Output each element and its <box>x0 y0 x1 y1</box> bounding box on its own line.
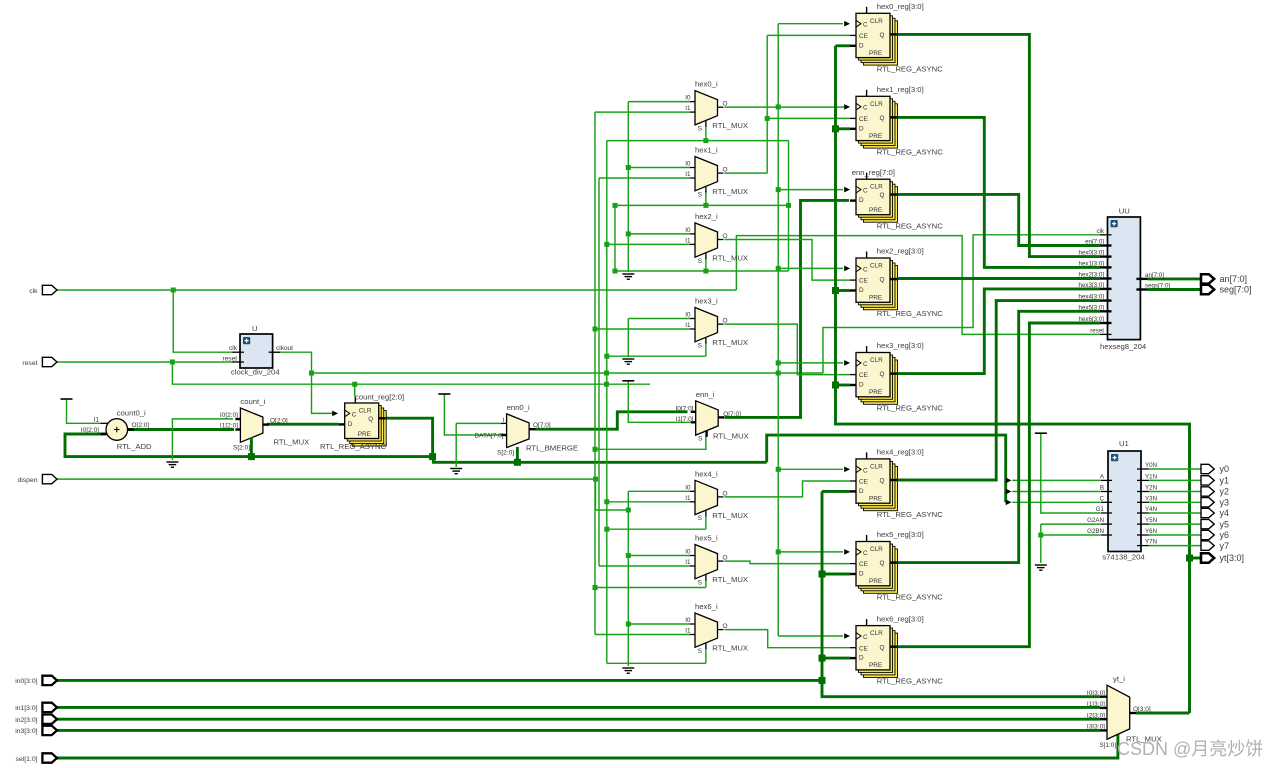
wire hex6_i I0 <box>628 623 690 625</box>
svg-text:I0: I0 <box>685 617 691 624</box>
svg-text:Y6N: Y6N <box>1145 528 1157 535</box>
svg-text:S[1:0]: S[1:0] <box>1100 742 1117 749</box>
svg-text:y5: y5 <box>1220 519 1230 529</box>
svg-text:C: C <box>352 411 357 418</box>
junction count bus junction <box>429 453 436 460</box>
wire hex3_i S stub <box>705 342 707 356</box>
svg-text:S[2:0]: S[2:0] <box>233 445 250 452</box>
junction reset junction <box>604 382 609 387</box>
svg-text:I1: I1 <box>685 628 691 635</box>
svg-text:I1[2:0]: I1[2:0] <box>220 423 238 430</box>
svg-text:hex6_reg[3:0]: hex6_reg[3:0] <box>877 614 924 623</box>
wire enn_i S line <box>595 448 707 450</box>
svg-text:Q: Q <box>880 644 885 651</box>
wire in2[3:0] bus <box>56 718 1100 721</box>
wire hex2_i O to hex2_reg CE <box>725 240 851 281</box>
svg-text:CE: CE <box>859 645 868 652</box>
svg-text:y0: y0 <box>1220 464 1230 474</box>
svg-text:hex4[3:0]: hex4[3:0] <box>1079 294 1105 301</box>
svg-text:hex5[3:0]: hex5[3:0] <box>1079 304 1105 311</box>
svg-text:RTL_MUX: RTL_MUX <box>712 338 748 347</box>
wire hex1_i I1 <box>599 177 690 179</box>
wire enn_i S stub <box>705 435 707 449</box>
svg-text:D: D <box>859 488 864 495</box>
wire hex0_i I1 <box>595 111 690 113</box>
wire hex5_i S stub <box>705 579 707 588</box>
wire in1[3:0] bus <box>56 706 1100 709</box>
wire Y5N to y5 port <box>1148 523 1202 525</box>
wire yt_i O <box>1136 712 1190 715</box>
svg-text:I1: I1 <box>685 237 691 244</box>
wire hex4_reg D <box>822 490 850 493</box>
wire hex6_i I1 <box>595 634 690 636</box>
wire Y6N to y6 port <box>1148 534 1202 536</box>
svg-text:CLR: CLR <box>359 408 372 415</box>
wire hex2_reg Q to hexseg <box>898 277 1101 280</box>
svg-text:CLR: CLR <box>870 184 883 191</box>
mux hex5_i (RTL_MUX) <box>690 545 724 581</box>
svg-text:C: C <box>863 266 868 273</box>
channel rail B <box>598 178 600 566</box>
register enn_reg[7:0] (RTL_REG_ASYNC) <box>850 173 898 223</box>
wire hex2_i S stub <box>705 257 707 271</box>
svg-text:RTL_MUX: RTL_MUX <box>274 437 310 446</box>
output port y0 <box>1201 464 1214 473</box>
svg-text:hex3[3:0]: hex3[3:0] <box>1079 282 1105 289</box>
svg-text:I0: I0 <box>685 484 691 491</box>
wire Y0N to y0 port <box>1148 468 1202 470</box>
output port y4 <box>1201 508 1214 517</box>
register count_reg[2:0] (RTL_REG_ASYNC) <box>339 397 387 447</box>
svg-text:PRE: PRE <box>869 389 882 396</box>
svg-text:CLR: CLR <box>870 357 883 364</box>
svg-text:Y0N: Y0N <box>1145 462 1157 469</box>
select collector rail <box>788 141 790 271</box>
mux enn_i (RTL_MUX) <box>691 401 725 437</box>
wire bit to B <box>1012 491 1100 493</box>
wire clkout to hexseg clk <box>823 235 1100 373</box>
svg-text:in1[3:0]: in1[3:0] <box>15 705 37 712</box>
wire G2BN wire <box>1041 534 1100 536</box>
svg-text:PRE: PRE <box>869 295 882 302</box>
wire hex1_reg CE <box>767 117 850 119</box>
wire hex3_reg D <box>836 384 851 387</box>
svg-text:Q: Q <box>368 416 373 423</box>
register hex6_reg[3:0] (RTL_REG_ASYNC) <box>850 619 898 677</box>
svg-text:S: S <box>698 126 703 133</box>
wire count bus to s74138 select <box>767 435 1006 502</box>
input port in2[3:0] <box>42 715 57 724</box>
wire seg[7:0] to port <box>1148 288 1202 291</box>
svg-text:RTL_REG_ASYNC: RTL_REG_ASYNC <box>320 442 387 451</box>
wire clk net horizontal <box>56 289 736 291</box>
wire Y7N to y7 port <box>1148 545 1202 547</box>
svg-text:RTL_MUX: RTL_MUX <box>712 644 748 653</box>
wire hex6_i S stub <box>705 647 707 663</box>
svg-text:hex0[3:0]: hex0[3:0] <box>1079 250 1105 257</box>
wire hex5_reg C <box>778 551 843 553</box>
svg-text:enn_i: enn_i <box>696 390 715 399</box>
wire hex2_i I0 <box>628 233 690 235</box>
wire hex1_i S stub <box>705 191 707 206</box>
svg-text:RTL_BMERGE: RTL_BMERGE <box>526 444 578 453</box>
wire in0[3:0] bus <box>56 679 822 682</box>
mux count_i (RTL_MUX) <box>235 408 269 444</box>
svg-text:dispen: dispen <box>17 477 37 484</box>
svg-text:clk: clk <box>29 288 38 295</box>
svg-text:reset: reset <box>22 360 37 367</box>
mux hex2_i (RTL_MUX) <box>690 223 724 259</box>
wire hex0_i O to hex1_reg C <box>725 106 845 108</box>
svg-text:S: S <box>698 436 703 443</box>
C pin arrow <box>844 104 850 110</box>
wire hex5_i I1 <box>599 565 690 567</box>
module U1 (s74138_204) <box>1101 451 1149 552</box>
svg-text:y3: y3 <box>1220 498 1230 508</box>
wire an[7:0] to port <box>1148 277 1202 280</box>
channel rail E segment 2 <box>627 319 629 358</box>
wire clk to clock_div <box>173 290 234 352</box>
svg-text:hex4_reg[3:0]: hex4_reg[3:0] <box>877 448 924 457</box>
ground hex3_i I0 tie <box>622 359 634 364</box>
svg-text:O: O <box>723 167 728 174</box>
ground count_i I0 tie low <box>166 462 178 467</box>
wire hex4_i O to hex4_reg CE <box>725 481 851 497</box>
svg-text:I1: I1 <box>685 495 691 502</box>
svg-text:RTL_REG_ASYNC: RTL_REG_ASYNC <box>877 64 944 73</box>
svg-text:I0[2:0]: I0[2:0] <box>220 412 238 419</box>
wire hex4_i I0 <box>628 490 690 492</box>
channel rail C <box>606 141 608 664</box>
svg-text:C: C <box>863 634 868 641</box>
svg-text:I0: I0 <box>685 312 691 319</box>
svg-text:CE: CE <box>859 33 868 40</box>
svg-text:hexseg8_204: hexseg8_204 <box>1100 342 1147 351</box>
wire enn0_i I tie low <box>455 423 457 467</box>
svg-text:G2BN: G2BN <box>1087 528 1104 535</box>
svg-text:S: S <box>698 579 703 586</box>
svg-text:G2AN: G2AN <box>1087 517 1104 524</box>
svg-text:hex4_i: hex4_i <box>695 469 718 478</box>
svg-text:D: D <box>859 125 864 132</box>
svg-text:CE: CE <box>859 278 868 285</box>
svg-text:RTL_MUX: RTL_MUX <box>712 187 748 196</box>
svg-text:CLR: CLR <box>870 463 883 470</box>
svg-text:D: D <box>859 382 864 389</box>
svg-text:yt[3:0]: yt[3:0] <box>1220 553 1245 563</box>
wire enn_reg C <box>778 189 843 191</box>
svg-text:RTL_ADD: RTL_ADD <box>117 442 152 451</box>
register hex5_reg[3:0] (RTL_REG_ASYNC) <box>850 535 898 593</box>
svg-text:hex2_i: hex2_i <box>695 212 718 221</box>
wire hex1_i O to CE rail <box>725 172 768 174</box>
svg-text:C: C <box>1100 495 1105 502</box>
svg-text:I0: I0 <box>685 549 691 556</box>
register hex2_reg[3:0] (RTL_REG_ASYNC) <box>850 252 898 310</box>
svg-text:I1: I1 <box>94 417 100 424</box>
register hex3_reg[3:0] (RTL_REG_ASYNC) <box>850 346 898 404</box>
wire hex5_reg Q to hexseg <box>898 311 1101 562</box>
wire hex6_reg C <box>778 635 843 637</box>
svg-text:hex5_reg[3:0]: hex5_reg[3:0] <box>877 530 924 539</box>
svg-text:O: O <box>723 318 728 325</box>
in0 rail to D pins <box>822 491 1100 696</box>
mux hex0_i (RTL_MUX) <box>690 91 724 127</box>
D bus rail <box>836 46 1190 713</box>
svg-text:O[7:0]: O[7:0] <box>533 422 551 429</box>
wire Y4N to y4 port <box>1148 512 1202 514</box>
wire hex2_reg D <box>836 289 851 292</box>
wire reset distribution <box>172 362 650 384</box>
svg-text:RTL_REG_ASYNC: RTL_REG_ASYNC <box>877 222 944 231</box>
output port seg[7:0] <box>1201 285 1214 294</box>
output port y6 <box>1201 530 1214 539</box>
wire hex3_reg Q to hexseg <box>898 289 1101 374</box>
junction reset to count_reg CLR <box>352 382 357 387</box>
svg-text:count_i: count_i <box>240 397 265 406</box>
svg-text:PRE: PRE <box>869 495 882 502</box>
svg-text:A: A <box>1100 473 1105 480</box>
wire clkout distribution <box>312 372 824 374</box>
svg-text:I1: I1 <box>685 559 691 566</box>
wire hex1_reg D <box>836 127 851 130</box>
register hex1_reg[3:0] (RTL_REG_ASYNC) <box>850 90 898 148</box>
wire Y2N to y2 port <box>1148 491 1202 493</box>
wire net to hexseg reset <box>736 236 1100 335</box>
wire bit to A <box>1012 479 1100 481</box>
C pin arrow <box>844 21 850 27</box>
svg-text:C: C <box>863 22 868 29</box>
wire hex4_i S stub <box>705 515 707 530</box>
wire count0_i O to count_i I1 <box>128 428 234 431</box>
svg-text:an[7:0]: an[7:0] <box>1145 272 1164 279</box>
wire enn_i O to enn_reg D <box>725 200 850 417</box>
svg-text:count_reg[2:0]: count_reg[2:0] <box>355 393 404 402</box>
wire hex1_i S line <box>615 204 789 206</box>
svg-text:hex3_reg[3:0]: hex3_reg[3:0] <box>877 341 924 350</box>
wire hex0_i S line <box>607 140 789 142</box>
svg-text:RTL_MUX: RTL_MUX <box>712 254 748 263</box>
module U (clock_div_204) <box>233 334 281 368</box>
svg-text:O: O <box>723 555 728 562</box>
mux hex6_i (RTL_MUX) <box>690 613 724 649</box>
wire bit to C <box>1012 501 1100 503</box>
wire hex5_reg D <box>822 573 850 576</box>
svg-text:C: C <box>863 188 868 195</box>
svg-text:I2[3:0]: I2[3:0] <box>1087 713 1105 720</box>
wire hex5_i O to hex5_reg CE <box>725 561 851 564</box>
fanout arrow to pin C <box>1006 500 1012 506</box>
register hex4_reg[3:0] (RTL_REG_ASYNC) <box>850 452 898 510</box>
mux yt_i (RTL_MUX 4-input) <box>1100 685 1136 739</box>
svg-text:in0[3:0]: in0[3:0] <box>15 678 37 685</box>
wire enn_reg Q to hexseg en <box>898 194 1101 245</box>
svg-text:I0[7:0]: I0[7:0] <box>675 405 693 412</box>
svg-text:S[2:0]: S[2:0] <box>497 450 514 457</box>
svg-text:I0[3:0]: I0[3:0] <box>1087 690 1105 697</box>
constant tie bar G1 <box>1035 432 1047 434</box>
wire hex5_i S line <box>595 587 706 589</box>
svg-text:Y2N: Y2N <box>1145 485 1157 492</box>
svg-text:PRE: PRE <box>358 431 371 438</box>
svg-text:I0: I0 <box>685 227 691 234</box>
output port an[7:0] <box>1201 274 1214 283</box>
svg-text:clk: clk <box>1096 228 1104 235</box>
svg-text:C: C <box>863 467 868 474</box>
svg-text:O: O <box>723 233 728 240</box>
svg-text:PRE: PRE <box>869 578 882 585</box>
svg-text:S: S <box>698 342 703 349</box>
svg-text:y1: y1 <box>1220 476 1230 486</box>
svg-text:hex2_reg[3:0]: hex2_reg[3:0] <box>877 247 924 256</box>
svg-text:RTL_REG_ASYNC: RTL_REG_ASYNC <box>877 309 944 318</box>
wire hex2_i S line <box>615 270 789 272</box>
svg-text:hex0_reg[3:0]: hex0_reg[3:0] <box>877 2 924 11</box>
svg-text:hex6[3:0]: hex6[3:0] <box>1079 316 1105 323</box>
wire hex4_reg C <box>778 468 843 470</box>
wire hex6_reg Q to hexseg <box>898 323 1101 647</box>
svg-text:clk: clk <box>229 345 238 352</box>
svg-text:S: S <box>698 191 703 198</box>
svg-text:segs[7:0]: segs[7:0] <box>1145 283 1170 290</box>
svg-text:Q: Q <box>880 371 885 378</box>
svg-text:I1[3:0]: I1[3:0] <box>1087 701 1105 708</box>
junction in0 junction <box>819 677 826 684</box>
wire enn0_i I <box>456 422 501 424</box>
junction clk branch <box>171 288 176 293</box>
wire Y1N to y1 port <box>1148 479 1202 481</box>
ground rail E tie low <box>622 668 634 673</box>
svg-text:reset: reset <box>1090 327 1104 334</box>
svg-text:Q: Q <box>880 277 885 284</box>
fanout arrow to pin A <box>1006 478 1012 484</box>
svg-text:O[2:0]: O[2:0] <box>132 422 150 429</box>
input port in1[3:0] <box>42 703 57 712</box>
junction clkout branch <box>309 371 314 376</box>
svg-text:Q: Q <box>880 192 885 199</box>
svg-text:CE: CE <box>859 372 868 379</box>
output port yt[3:0] <box>1201 553 1214 562</box>
svg-text:RTL_MUX: RTL_MUX <box>713 431 749 440</box>
mux hex3_i (RTL_MUX) <box>690 308 724 344</box>
svg-text:D: D <box>348 421 353 428</box>
wire hex4_i S line <box>607 528 706 530</box>
junction yt port junction <box>1186 555 1193 562</box>
C pin arrow <box>844 360 850 366</box>
wire count_reg Q feedback <box>383 418 433 456</box>
input port dispen <box>42 474 57 483</box>
svg-text:clkout: clkout <box>276 345 293 352</box>
module UU (hexseg8_204) <box>1100 217 1148 340</box>
svg-text:G1: G1 <box>1096 506 1105 513</box>
ground rail E tie <box>622 274 634 279</box>
svg-text:hex2[3:0]: hex2[3:0] <box>1079 272 1105 279</box>
output port y3 <box>1201 498 1214 507</box>
input port sel[1:0] <box>42 753 57 762</box>
wire hex3_reg C <box>778 362 843 364</box>
svg-text:I1: I1 <box>685 322 691 329</box>
svg-text:I3[3:0]: I3[3:0] <box>1087 724 1105 731</box>
svg-text:Y1N: Y1N <box>1145 473 1157 480</box>
svg-text:hex1_reg[3:0]: hex1_reg[3:0] <box>877 85 924 94</box>
svg-text:y7: y7 <box>1220 541 1230 551</box>
svg-text:I0: I0 <box>685 95 691 102</box>
channel rail D <box>614 205 616 271</box>
wire enn0_i O to enn_i I0 <box>536 412 688 429</box>
input port reset <box>42 357 57 366</box>
wire hex3_i S line <box>607 355 706 357</box>
register clock rail <box>777 24 779 636</box>
wire enn0_i S to count bus <box>516 447 519 462</box>
svg-text:D: D <box>859 287 864 294</box>
wire hex2_reg C <box>778 267 843 269</box>
svg-text:D: D <box>859 42 864 49</box>
svg-text:in2[3:0]: in2[3:0] <box>15 717 37 724</box>
junction dispen junction <box>593 477 598 482</box>
svg-text:y2: y2 <box>1220 487 1230 497</box>
svg-text:RTL_REG_ASYNC: RTL_REG_ASYNC <box>877 593 944 602</box>
svg-text:Q: Q <box>880 115 885 122</box>
junction reset branch <box>170 360 175 365</box>
svg-text:I1: I1 <box>685 171 691 178</box>
svg-text:O[2:0]: O[2:0] <box>270 418 288 425</box>
svg-text:D: D <box>859 571 864 578</box>
svg-text:hex5_i: hex5_i <box>695 534 718 543</box>
CE rail <box>766 35 768 173</box>
svg-text:CLR: CLR <box>870 101 883 108</box>
wire enn_i I1 tie <box>628 381 690 423</box>
svg-text:en[7:0]: en[7:0] <box>1085 239 1104 246</box>
svg-text:I1[7:0]: I1[7:0] <box>675 416 693 423</box>
C pin arrow <box>844 187 850 193</box>
svg-text:RTL_MUX: RTL_MUX <box>712 121 748 130</box>
channel rail E segment 3 <box>627 491 629 666</box>
svg-text:enn_reg[7:0]: enn_reg[7:0] <box>852 168 895 177</box>
svg-text:C: C <box>863 105 868 112</box>
svg-text:D: D <box>859 197 864 204</box>
constant tie bar enn_i I1 <box>622 380 634 382</box>
C pin arrow count_reg <box>332 411 338 417</box>
svg-text:I0: I0 <box>685 161 691 168</box>
svg-text:RTL_MUX: RTL_MUX <box>712 511 748 520</box>
svg-text:PRE: PRE <box>869 133 882 140</box>
wire count_reg CLR to reset <box>354 384 356 396</box>
input port in0[3:0] <box>42 676 57 685</box>
svg-text:PRE: PRE <box>869 50 882 57</box>
svg-text:CE: CE <box>859 561 868 568</box>
svg-text:an[7:0]: an[7:0] <box>1220 274 1248 284</box>
wire hex0_i I0 <box>628 101 690 103</box>
constant tie bar count0_i I1 <box>61 398 73 400</box>
svg-text:clock_div_204: clock_div_204 <box>231 368 280 377</box>
constant tie bar enn0_i DATA <box>438 393 450 395</box>
svg-text:Y7N: Y7N <box>1145 539 1157 546</box>
svg-text:C: C <box>863 361 868 368</box>
wire hex5_i I0 <box>628 555 690 557</box>
svg-text:DATA[7:0]: DATA[7:0] <box>474 433 503 440</box>
fanout arrow to pin B <box>1006 489 1012 495</box>
svg-text:O: O <box>723 490 728 497</box>
svg-text:Y4N: Y4N <box>1145 506 1157 513</box>
svg-text:I1: I1 <box>685 105 691 112</box>
ground G2AN G2BN tie low <box>1035 565 1047 570</box>
wire dispen branch <box>596 479 629 510</box>
wire hex1_i I0 <box>628 167 690 169</box>
svg-text:CLR: CLR <box>870 630 883 637</box>
wire hex1_reg Q to hexseg <box>898 117 1101 267</box>
count_i S stub <box>250 438 253 457</box>
svg-text:D: D <box>859 655 864 662</box>
